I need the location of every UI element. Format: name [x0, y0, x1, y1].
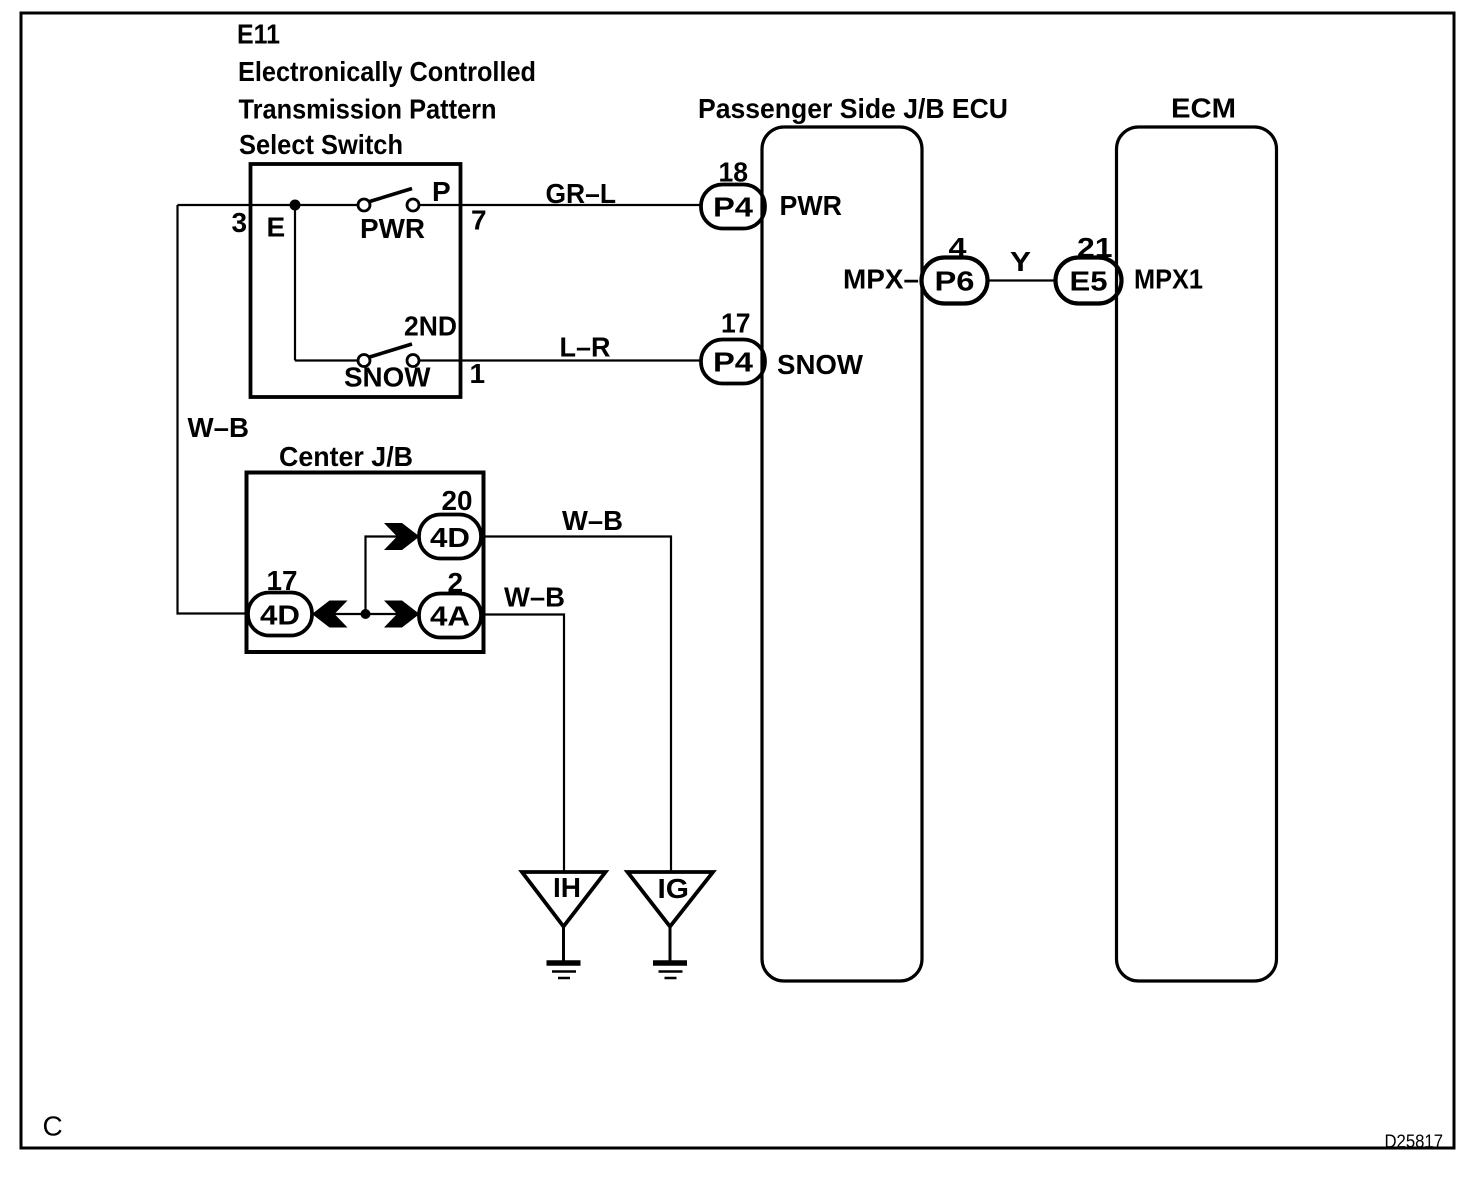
connector P4 pin 17: [701, 340, 765, 384]
svg-text:GR–L: GR–L: [546, 178, 617, 209]
svg-text:Transmission Pattern: Transmission Pattern: [239, 94, 497, 125]
connector 4D pin 20: [419, 515, 481, 559]
svg-text:P: P: [432, 176, 451, 207]
svg-text:4A: 4A: [430, 601, 470, 632]
svg-text:SNOW: SNOW: [344, 362, 431, 393]
svg-text:L–R: L–R: [560, 332, 611, 363]
wire L-R from SNOW switch to P4 pin 17: [419, 359, 702, 361]
svg-text:Passenger Side J/B ECU: Passenger Side J/B ECU: [698, 93, 1008, 124]
svg-text:20: 20: [442, 485, 473, 516]
connector E5 pin 21: [1056, 258, 1122, 304]
ECM block: [1117, 127, 1277, 981]
svg-text:Y: Y: [1010, 246, 1031, 277]
wire bus 4D17 to 4A: [312, 613, 419, 615]
svg-text:SNOW: SNOW: [777, 349, 864, 380]
svg-text:P6: P6: [935, 266, 975, 297]
svg-text:Select Switch: Select Switch: [239, 129, 403, 160]
switch SNOW blade: [368, 344, 412, 358]
svg-text:18: 18: [719, 157, 749, 188]
svg-text:MPX1: MPX1: [1134, 264, 1203, 295]
svg-text:W–B: W–B: [562, 505, 623, 536]
svg-text:PWR: PWR: [360, 213, 425, 244]
svg-text:D25817: D25817: [1385, 1131, 1444, 1152]
svg-text:IG: IG: [658, 873, 690, 904]
arrow out of 4D17: [312, 601, 348, 628]
switch PWR contact left: [358, 199, 370, 211]
wire W-B from 4D20 to IG ground: [481, 537, 671, 873]
svg-text:E: E: [267, 212, 286, 243]
arrow into 4D20: [384, 523, 420, 550]
ground IH stem and bars: [562, 927, 565, 962]
svg-text:17: 17: [267, 565, 298, 596]
wire GR-L from PWR switch to P4 pin 18: [419, 204, 702, 206]
arrow into 4A: [384, 601, 420, 628]
wire W-B from 4A to IH ground: [481, 615, 564, 873]
svg-text:4D: 4D: [260, 600, 300, 631]
ground IH triangle: [522, 872, 606, 927]
switch PWR blade: [368, 189, 412, 203]
ground IG stem and bars: [669, 927, 672, 962]
wire: W-B riser from pin 3 down to Center J/B 4D: [178, 205, 249, 614]
svg-text:Electronically Controlled: Electronically Controlled: [238, 56, 536, 87]
switch PWR contact right: [407, 199, 419, 211]
connector P6 pin 4: [922, 258, 988, 304]
Passenger Side J/B ECU block: [762, 127, 922, 981]
wire: E branch down to SNOW switch: [294, 205, 296, 361]
Center J/B box: [247, 473, 484, 653]
svg-text:MPX–: MPX–: [843, 264, 919, 295]
wire: pin3 feed line into PWR switch: [178, 204, 359, 206]
svg-text:3: 3: [232, 207, 248, 238]
svg-text:4D: 4D: [430, 522, 470, 553]
switch SNOW contact left: [358, 355, 370, 367]
ground IG triangle: [628, 872, 714, 927]
junction dot: [361, 609, 371, 619]
svg-text:IH: IH: [553, 872, 581, 903]
connector 4A pin 2: [419, 594, 481, 638]
svg-text:C: C: [43, 1111, 63, 1142]
svg-text:Center J/B: Center J/B: [279, 441, 413, 472]
svg-text:E5: E5: [1070, 266, 1108, 297]
svg-text:P4: P4: [713, 347, 753, 378]
node E junction dot: [290, 200, 301, 211]
svg-text:E11: E11: [237, 19, 280, 50]
svg-text:4: 4: [949, 232, 967, 263]
switch box E11: [251, 164, 461, 397]
svg-text:W–B: W–B: [188, 412, 250, 443]
svg-text:ECM: ECM: [1171, 93, 1236, 124]
svg-text:2ND: 2ND: [404, 311, 457, 342]
svg-text:1: 1: [470, 358, 486, 389]
svg-text:PWR: PWR: [780, 190, 843, 221]
connector 4D pin 17: [248, 593, 312, 636]
switch SNOW contact right: [407, 355, 419, 367]
svg-text:2: 2: [448, 567, 464, 598]
svg-text:17: 17: [721, 308, 751, 339]
svg-text:21: 21: [1077, 232, 1113, 263]
svg-text:W–B: W–B: [504, 582, 565, 613]
wire riser to 4D20: [366, 537, 420, 615]
svg-text:7: 7: [471, 205, 487, 236]
svg-text:P4: P4: [713, 192, 753, 223]
connector P4 pin 18: [701, 185, 765, 229]
wire Y from P6 to E5: [987, 279, 1056, 281]
